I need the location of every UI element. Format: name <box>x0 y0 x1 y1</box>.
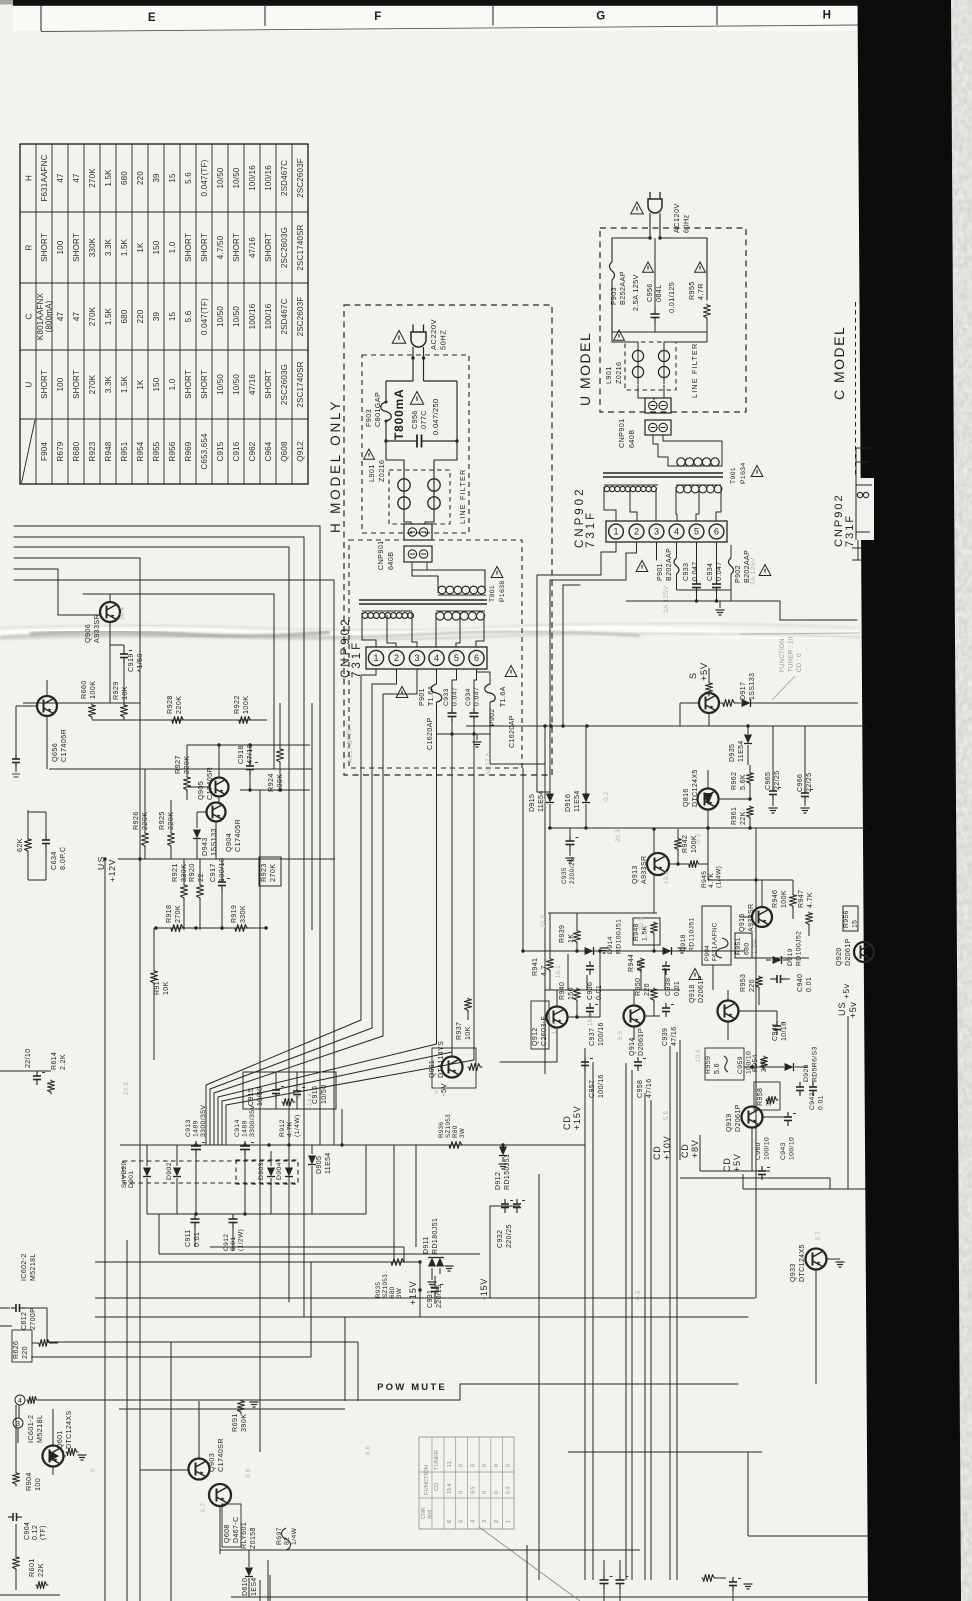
resistor bottom small <box>36 1582 48 1589</box>
capacitor C956 U <box>654 252 656 310</box>
svg-text:-0.2: -0.2 <box>604 791 610 803</box>
table col R679 <box>56 173 65 183</box>
wires coils to CNP901 U <box>638 385 654 400</box>
warning triangle at plug U <box>631 202 644 214</box>
wire Q903 base <box>140 1469 188 1471</box>
wire Q911 to R936 rail <box>482 1066 500 1068</box>
resistor R950 <box>651 988 658 1002</box>
svg-text:0.8: 0.8 <box>246 1468 252 1478</box>
svg-text:2: 2 <box>634 527 639 537</box>
svg-text:SHORT: SHORT <box>72 370 81 399</box>
svg-text:0: 0 <box>91 1468 97 1472</box>
resistor R940 <box>574 988 581 1002</box>
coil right H <box>428 479 440 491</box>
svg-text:us: us <box>434 1087 440 1094</box>
svg-text:47: 47 <box>56 173 65 183</box>
table col R948 <box>104 169 113 187</box>
transistor Q915 <box>752 907 772 927</box>
wire from U rail to right <box>780 601 857 620</box>
svg-text:-15V: -15V <box>479 1278 489 1300</box>
svg-text:SHORT: SHORT <box>232 233 241 262</box>
table header H <box>25 175 34 181</box>
svg-text:220: 220 <box>136 309 145 323</box>
svg-text:10.6: 10.6 <box>696 1049 702 1062</box>
horizontal rail y1298 <box>95 1297 755 1299</box>
table col Q912 <box>296 158 305 198</box>
svg-text:C96622/25: C96622/25 <box>797 772 813 792</box>
svg-text:47: 47 <box>72 312 81 322</box>
svg-text:11: 11 <box>447 1461 453 1467</box>
CNP902 H pin 1 <box>368 650 383 665</box>
resistor right of pin4 <box>27 1397 38 1404</box>
warning triangle below CNP902 U <box>636 561 648 572</box>
wire y1536 to band <box>748 1535 868 1537</box>
resistor R937 <box>465 998 472 1012</box>
wire y1597 bottom <box>231 1596 869 1598</box>
svg-text:10/50: 10/50 <box>232 167 241 188</box>
capacitor C914 <box>244 1141 246 1146</box>
svg-text:1K: 1K <box>136 379 145 390</box>
svg-text:5.6: 5.6 <box>184 310 193 322</box>
bottom rail U filter <box>612 331 707 333</box>
boxed label R923 270K <box>259 857 281 886</box>
svg-text:2SC2603F: 2SC2603F <box>296 158 305 198</box>
wire Q917 base-emitter <box>708 713 710 726</box>
fuse P902 U <box>717 545 732 558</box>
resistor R944 <box>638 958 645 972</box>
transistor Q912 with boxed label <box>547 1007 568 1028</box>
wires coils to CNP901 H <box>404 516 411 524</box>
wire y1067 R959 to D920 <box>744 1066 784 1068</box>
wire U pin1 drop <box>537 542 616 792</box>
resistor R912 <box>282 1099 295 1106</box>
svg-text:TUNER: TUNER <box>434 1450 440 1470</box>
svg-text:47: 47 <box>56 312 65 322</box>
svg-text:0.6: 0.6 <box>366 1445 372 1455</box>
bottom resistor right <box>702 1575 716 1582</box>
svg-text:2A 125V: 2A 125V <box>663 585 670 613</box>
warning triangle at C956 H <box>410 392 424 405</box>
top black bar <box>13 0 860 6</box>
svg-text:2SC1740SR: 2SC1740SR <box>296 361 305 407</box>
diode D915 <box>549 792 551 794</box>
svg-text:D904: D904 <box>276 1162 283 1180</box>
ground near R691 <box>250 1401 259 1403</box>
svg-text:22/10: 22/10 <box>25 1048 32 1068</box>
wires under U fuses <box>677 589 732 591</box>
svg-text:SHORT: SHORT <box>200 233 209 262</box>
svg-text:5: 5 <box>454 653 459 663</box>
svg-text:5.6: 5.6 <box>184 172 193 184</box>
table col F904 <box>40 154 49 201</box>
AC plug H <box>411 332 426 347</box>
svg-text:2SC2603G: 2SC2603G <box>280 364 289 405</box>
svg-text:LINE FILTER: LINE FILTER <box>690 343 699 398</box>
table col R923 <box>88 168 97 188</box>
capacitor C958 <box>637 1057 639 1062</box>
diode D919 <box>773 956 782 964</box>
wire y726 link <box>466 725 866 727</box>
resistor R953 <box>756 976 763 989</box>
svg-text:+12V: +12V <box>107 859 117 882</box>
table col R969 <box>184 172 193 184</box>
boxed label R958 39 <box>754 1082 780 1110</box>
svg-text:10/50: 10/50 <box>232 306 241 327</box>
resistor R947 <box>806 912 813 926</box>
transistor Q911 <box>442 1057 463 1078</box>
resistor R939 <box>576 913 578 930</box>
diode D912 shunt <box>499 1147 507 1156</box>
svg-text:5: 5 <box>459 1520 465 1523</box>
svg-text:34.4: 34.4 <box>119 606 126 620</box>
svg-text:15.4: 15.4 <box>447 1484 453 1495</box>
diode D904 <box>288 1151 290 1166</box>
svg-text:39: 39 <box>152 312 161 322</box>
bus wire 2 <box>14 537 304 1317</box>
svg-text:Q912: Q912 <box>296 441 305 462</box>
pow mute wire <box>48 1399 460 1401</box>
resistor R922 <box>238 717 252 724</box>
svg-text:C1620AP: C1620AP <box>427 717 434 750</box>
svg-text:15: 15 <box>168 173 177 183</box>
wire +15V rail upper <box>95 1261 420 1263</box>
capacitor C936 <box>589 961 591 966</box>
transistor Q601 <box>43 1446 64 1467</box>
CNP902 H pin 3 <box>409 650 424 665</box>
resistor R958 symbol <box>766 1097 778 1104</box>
diode at y951 <box>577 950 583 952</box>
vertical feed R935 <box>393 1247 395 1262</box>
fuse F903 U <box>610 262 615 280</box>
fuse P901 U <box>676 542 678 558</box>
svg-text:330K: 330K <box>88 237 97 257</box>
svg-text:CD: CD <box>434 1483 440 1491</box>
svg-text:R946100K: R946100K <box>772 890 788 908</box>
horizontal rail y1317 <box>95 1316 748 1318</box>
diode D901 <box>146 1145 148 1166</box>
svg-text:1.5K: 1.5K <box>104 169 113 187</box>
CNP902 H pin 2 <box>389 650 404 665</box>
capacitor C965 <box>772 726 774 787</box>
resistor R942 <box>675 838 682 851</box>
svg-text:F631AAFNC: F631AAFNC <box>40 154 49 201</box>
bus wire 5 <box>14 569 100 615</box>
wire y951 <box>523 950 745 952</box>
ground under U caps <box>719 601 721 608</box>
long vertical wire x105 <box>104 859 106 1601</box>
svg-text:SHORT: SHORT <box>184 233 193 262</box>
diode D610 <box>245 1568 253 1577</box>
long verticals bottom right <box>584 1048 586 1580</box>
svg-text:SHORT: SHORT <box>264 233 273 262</box>
link D915 top <box>537 791 550 793</box>
svg-text:0: 0 <box>482 1491 488 1494</box>
connector CNP901 pins 3-4 H <box>404 546 432 562</box>
main DC rail y1145 <box>120 1144 585 1146</box>
svg-text:G: G <box>596 11 605 23</box>
transformer T901 primary U <box>657 452 659 457</box>
svg-text:C9340.047: C9340.047 <box>707 561 723 581</box>
resistor 62K <box>25 838 32 853</box>
capacitor C932 pair <box>490 1205 520 1207</box>
transformer T901 secondary left U <box>604 486 609 491</box>
table col C962 <box>248 165 257 191</box>
capacitor C918 <box>249 745 251 762</box>
svg-text:4: 4 <box>674 527 679 537</box>
svg-text:C96522/25: C96522/25 <box>765 770 781 790</box>
svg-text:1K: 1K <box>136 242 145 253</box>
svg-text:2SD467C: 2SD467C <box>280 298 289 334</box>
svg-text:C91510/50: C91510/50 <box>248 1086 264 1106</box>
coil left H <box>398 479 410 491</box>
C model partial transformer coil <box>857 492 862 497</box>
bus wire 6 <box>14 580 334 1145</box>
warning triangle at L901 H <box>364 449 375 459</box>
function table <box>419 1437 514 1529</box>
wires plug to rails U <box>612 238 650 258</box>
capacitor C912 <box>232 1214 234 1219</box>
bottom small caps area <box>259 1580 261 1601</box>
svg-text:10/50: 10/50 <box>216 374 225 395</box>
svg-text:R951: R951 <box>120 441 129 461</box>
wire x563 drop <box>563 585 580 726</box>
wire plug to rails H <box>412 358 414 381</box>
svg-text:SHORT: SHORT <box>40 370 49 399</box>
transistor Q656 <box>37 696 57 716</box>
resistor R929 <box>121 704 128 719</box>
svg-text:0: 0 <box>506 1464 512 1467</box>
diode D920 <box>780 1066 784 1068</box>
svg-text:C956077C: C956077C <box>410 410 428 429</box>
svg-text:0: 0 <box>494 1491 500 1494</box>
capacitor C933 U <box>696 542 698 580</box>
diode D902 <box>176 1145 178 1166</box>
svg-text:1.5K: 1.5K <box>120 375 129 393</box>
wire U pin2 drop <box>550 542 637 792</box>
fuse F903 H <box>381 402 392 421</box>
boxed label R951 680 <box>735 933 752 958</box>
svg-text:C916: C916 <box>232 441 241 461</box>
rail y720 <box>92 719 267 721</box>
capacitor C941 <box>776 1021 778 1026</box>
bus wire 1 <box>14 526 320 1145</box>
svg-text:C93947/16: C93947/16 <box>662 1026 678 1046</box>
bus wire 8 to relay area <box>249 769 251 1601</box>
svg-text:1.0: 1.0 <box>168 378 177 390</box>
verticals below rail <box>365 1145 367 1214</box>
resistor R919 <box>234 925 249 932</box>
wires CNP901 to T901 U <box>653 435 658 452</box>
svg-text:T1.6A: T1.6A <box>500 686 507 707</box>
corner wires y1286 <box>556 1150 632 1286</box>
svg-text:20.3: 20.3 <box>541 915 547 928</box>
svg-text:2: 2 <box>494 1520 500 1523</box>
bus wire 7 <box>83 594 274 769</box>
warning triangle L901 U <box>614 330 625 340</box>
svg-text:C9330.047: C9330.047 <box>683 561 699 581</box>
connector CNP901 pins U b <box>645 420 671 435</box>
boxed label R956 15 <box>843 906 858 931</box>
wires secondary to CNP902 H <box>362 613 376 647</box>
resistor above Q917 <box>706 682 713 696</box>
wires secondary to CNP902 U <box>604 487 616 521</box>
svg-text:16.1: 16.1 <box>588 1013 594 1026</box>
svg-text:C9110.01: C9110.01 <box>185 1229 201 1247</box>
long rail y1247 <box>210 1246 404 1248</box>
capacitor C934 H <box>474 669 477 709</box>
svg-text:R919330K: R919330K <box>231 905 247 923</box>
transistor Q917 <box>699 693 719 713</box>
AC plug U <box>648 199 662 213</box>
vertical x741 <box>740 1317 742 1384</box>
rail y745 <box>187 744 310 746</box>
svg-text:680: 680 <box>120 171 129 185</box>
bus wire 4 <box>14 557 140 559</box>
warning triangle right of P902 <box>505 666 517 677</box>
svg-text:0: 0 <box>482 1464 488 1467</box>
capacitor C966 <box>804 726 806 789</box>
svg-text:R925220K: R925220K <box>157 811 175 830</box>
capacitor C956 H <box>386 440 417 442</box>
svg-text:3.3K: 3.3K <box>104 238 113 256</box>
svg-text:4: 4 <box>434 653 439 663</box>
svg-text:4: 4 <box>18 1398 22 1405</box>
svg-text:R928220K: R928220K <box>165 695 183 714</box>
wire y1496 <box>45 1495 182 1497</box>
svg-text:U MODEL: U MODEL <box>577 332 593 406</box>
capacitor C911 <box>194 1207 196 1214</box>
svg-text:0: 0 <box>459 1491 465 1494</box>
svg-text:0.047(TF): 0.047(TF) <box>200 298 209 335</box>
svg-text:6: 6 <box>474 653 479 663</box>
capacitor C904 <box>8 1516 13 1518</box>
boxed label R948 1.5K <box>633 918 660 945</box>
svg-text:FUNCTION: FUNCTION <box>424 1465 430 1495</box>
svg-text:2SD467C: 2SD467C <box>280 160 289 196</box>
svg-text:1: 1 <box>506 1520 512 1523</box>
wire y1178 corner <box>680 1177 830 1179</box>
svg-text:H MODEL ONLY: H MODEL ONLY <box>328 399 343 533</box>
svg-text:2A 125V: 2A 125V <box>750 557 757 585</box>
svg-text:4.7/50: 4.7/50 <box>216 235 225 259</box>
svg-text:C94110/16: C94110/16 <box>772 1021 788 1041</box>
svg-text:H: H <box>25 175 34 181</box>
resistor R935 <box>390 1259 406 1266</box>
CNP902 U pin 2 <box>629 524 644 539</box>
svg-text:6: 6 <box>714 527 719 537</box>
svg-text:0.01/125: 0.01/125 <box>667 282 676 313</box>
svg-text:R921330K: R921330K <box>170 863 188 882</box>
svg-text:R660100K: R660100K <box>79 680 97 699</box>
svg-text:2SC1740SR: 2SC1740SR <box>296 224 305 270</box>
resistor R660 <box>89 704 96 719</box>
transformer T901 core U <box>603 472 723 474</box>
CNP902 U pin 6 <box>709 524 724 539</box>
wires Q912 <box>556 990 558 1007</box>
svg-text:5: 5 <box>694 527 699 537</box>
wires left edge bottom <box>47 1308 58 1342</box>
wires relay area <box>219 1550 221 1554</box>
header ruler line <box>41 25 858 32</box>
resistor R926 <box>142 832 149 848</box>
warning triangle near T901 H <box>491 567 503 578</box>
transistor Q904 <box>207 803 226 822</box>
svg-text:10/50: 10/50 <box>216 306 225 327</box>
svg-text:D903: D903 <box>258 1162 265 1180</box>
svg-text:IC601-2M5218L: IC601-2M5218L <box>26 1415 44 1443</box>
header tick E-left <box>40 5 42 31</box>
boxed label Q608 D467-C <box>222 1504 241 1547</box>
svg-text:SHORT: SHORT <box>200 370 209 399</box>
svg-text:C962: C962 <box>248 441 257 461</box>
resistor R614 and cap 22/10 <box>36 1071 38 1076</box>
svg-text:+15V: +15V <box>408 1281 418 1305</box>
svg-text:100/16: 100/16 <box>264 303 273 329</box>
svg-text:680: 680 <box>120 309 129 323</box>
transformer T901 core H <box>359 599 487 601</box>
svg-text:R954: R954 <box>136 441 145 461</box>
resistor R917 <box>151 970 158 985</box>
svg-text:100: 100 <box>56 240 65 254</box>
svg-text:F: F <box>374 11 382 23</box>
svg-text:-14.4: -14.4 <box>308 1092 314 1108</box>
resistor R941 <box>547 958 554 972</box>
rail y828 <box>548 827 866 829</box>
+12V rail <box>118 858 335 860</box>
svg-text:2: 2 <box>394 653 399 663</box>
svg-text:Q608: Q608 <box>280 441 289 462</box>
svg-text:+5v: +5v <box>848 1002 858 1018</box>
table col C915 <box>216 167 225 188</box>
svg-text:R948: R948 <box>104 441 113 461</box>
resistor R945 <box>688 861 700 868</box>
svg-text:R922100K: R922100K <box>232 695 250 714</box>
svg-text:27.5: 27.5 <box>296 1085 302 1098</box>
svg-text:T800mA: T800mA <box>392 389 406 441</box>
resistor R962 <box>747 772 754 785</box>
svg-text:100/16: 100/16 <box>264 165 273 191</box>
svg-text:C1620AP: C1620AP <box>509 715 516 748</box>
rail y720 <box>101 719 260 721</box>
svg-text:R9554.7R: R9554.7R <box>687 281 705 300</box>
diode D917 <box>736 702 741 704</box>
svg-text:R918270K: R918270K <box>166 905 182 923</box>
svg-text:20.3: 20.3 <box>124 1082 130 1095</box>
junction wires under fuses H <box>437 733 491 735</box>
svg-text:C956084L: C956084L <box>645 283 663 302</box>
svg-text:-0.2: -0.2 <box>696 833 702 845</box>
CNP902 U pin 1 <box>609 524 624 539</box>
wire us+5v <box>800 1010 840 1012</box>
capacitor C934 U <box>716 542 718 580</box>
H MODEL ONLY dashed box <box>344 305 552 775</box>
resistor R601 <box>13 1556 20 1571</box>
capacitor C939 <box>665 1003 667 1008</box>
resistor right of Q911 <box>468 1064 482 1071</box>
svg-text:1.5K: 1.5K <box>104 307 113 325</box>
svg-text:20.5: 20.5 <box>639 917 645 930</box>
line filter coil box H <box>389 470 450 524</box>
svg-text:R679: R679 <box>56 441 65 461</box>
table header R <box>25 244 34 250</box>
bottom ground right <box>744 1583 753 1585</box>
coil right U <box>658 350 669 361</box>
wires rails to coils H <box>386 441 404 476</box>
svg-text:47: 47 <box>72 173 81 183</box>
wire pin2 drop H <box>372 669 397 1028</box>
fan wires to rectifier <box>206 1020 361 1145</box>
resistor R921 <box>181 884 188 900</box>
